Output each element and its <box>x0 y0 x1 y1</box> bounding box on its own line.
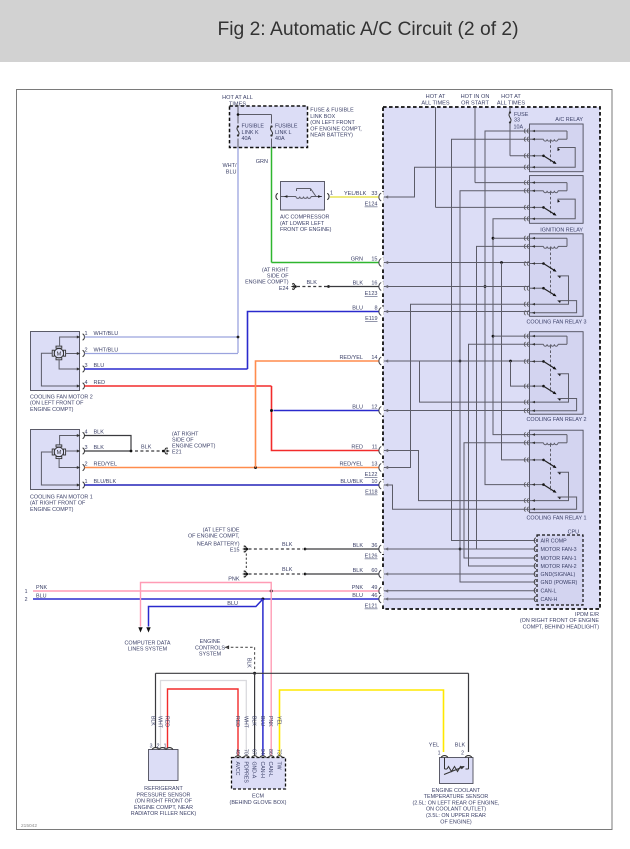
svg-text:HOT AT: HOT AT <box>426 94 446 100</box>
svg-text:BLK: BLK <box>307 280 318 286</box>
svg-text:RED/YEL: RED/YEL <box>339 355 363 361</box>
svg-text:1: 1 <box>85 479 88 485</box>
svg-text:RED: RED <box>94 380 106 386</box>
svg-text:MOTOR FAN-3: MOTOR FAN-3 <box>541 547 577 553</box>
svg-text:1: 1 <box>25 589 28 595</box>
svg-text:36: 36 <box>371 543 377 549</box>
svg-text:WHT: WHT <box>157 716 163 729</box>
svg-text:49: 49 <box>234 749 240 755</box>
svg-text:FRONT OF ENGINE): FRONT OF ENGINE) <box>280 227 332 233</box>
svg-text:ENGINE COMPT): ENGINE COMPT) <box>172 444 216 450</box>
svg-text:E126: E126 <box>365 554 378 560</box>
svg-text:E123: E123 <box>365 291 378 297</box>
svg-text:BLK: BLK <box>353 568 364 574</box>
svg-text:COMPT, BEHIND HEADLIGHT): COMPT, BEHIND HEADLIGHT) <box>523 624 600 630</box>
svg-text:YEL/BLK: YEL/BLK <box>344 191 367 197</box>
svg-text:BLU: BLU <box>259 716 265 726</box>
svg-text:16: 16 <box>371 280 377 286</box>
svg-text:(AT LOWER LEFT: (AT LOWER LEFT <box>280 221 325 227</box>
svg-text:OF ENGINE COMPT,: OF ENGINE COMPT, <box>310 126 362 132</box>
svg-text:E24: E24 <box>279 286 289 292</box>
svg-text:OF ENGINE): OF ENGINE) <box>440 819 472 825</box>
svg-text:(ON LEFT FRONT: (ON LEFT FRONT <box>310 120 355 126</box>
svg-text:FUSIBLE: FUSIBLE <box>275 124 298 130</box>
svg-text:3: 3 <box>85 363 88 369</box>
svg-text:WHT: WHT <box>242 716 248 729</box>
svg-text:(AT RIGHT: (AT RIGHT <box>262 268 289 274</box>
svg-text:RED: RED <box>164 716 170 727</box>
svg-text:HOT AT: HOT AT <box>501 94 521 100</box>
svg-text:ENGINE COOLANT: ENGINE COOLANT <box>432 788 481 794</box>
svg-text:PRESSURE SENSOR: PRESSURE SENSOR <box>137 792 191 798</box>
svg-text:BLK: BLK <box>353 280 364 286</box>
svg-text:BLK: BLK <box>353 543 364 549</box>
svg-text:SYSTEM: SYSTEM <box>199 652 222 658</box>
svg-text:Fig 2: Automatic A/C Circuit (: Fig 2: Automatic A/C Circuit (2 of 2) <box>217 19 518 40</box>
svg-text:BLU: BLU <box>226 170 237 176</box>
svg-text:BLU: BLU <box>352 404 363 410</box>
svg-text:10: 10 <box>371 479 377 485</box>
svg-text:BLU/BLK: BLU/BLK <box>340 479 363 485</box>
svg-text:12: 12 <box>371 404 377 410</box>
svg-text:GND-A: GND-A <box>251 762 257 779</box>
svg-text:AIR COMP: AIR COMP <box>541 539 568 545</box>
svg-text:RED/YEL: RED/YEL <box>94 462 118 468</box>
svg-text:1: 1 <box>330 191 333 197</box>
svg-text:LINK L: LINK L <box>275 130 291 136</box>
svg-text:70: 70 <box>242 749 248 755</box>
svg-text:RED: RED <box>351 444 363 450</box>
svg-text:BLU/BLK: BLU/BLK <box>94 479 117 485</box>
svg-text:94: 94 <box>259 749 265 755</box>
svg-text:E119: E119 <box>365 316 377 322</box>
svg-text:A/C RELAY: A/C RELAY <box>555 117 583 123</box>
svg-text:215042: 215042 <box>21 823 37 829</box>
svg-text:3: 3 <box>150 744 153 750</box>
svg-text:E122: E122 <box>365 472 378 478</box>
svg-text:LINK BOX: LINK BOX <box>310 114 335 120</box>
svg-text:CAN-L: CAN-L <box>541 589 557 595</box>
svg-text:HOT IN ON: HOT IN ON <box>461 94 490 100</box>
svg-text:BLK: BLK <box>141 445 152 451</box>
svg-text:1: 1 <box>438 751 441 757</box>
svg-text:WHT/: WHT/ <box>222 163 237 169</box>
svg-text:SIDE OF: SIDE OF <box>267 274 289 280</box>
svg-text:BLK: BLK <box>150 716 156 726</box>
svg-text:1: 1 <box>85 331 88 337</box>
svg-text:(3.5L: ON UPPER REAR: (3.5L: ON UPPER REAR <box>426 813 486 819</box>
svg-text:40A: 40A <box>275 136 285 142</box>
svg-text:ENGINE COMPT): ENGINE COMPT) <box>30 507 74 513</box>
svg-text:COOLING FAN RELAY 1: COOLING FAN RELAY 1 <box>526 516 586 522</box>
svg-text:(AT RIGHT FRONT OF: (AT RIGHT FRONT OF <box>30 501 86 507</box>
svg-text:14: 14 <box>371 355 377 361</box>
svg-text:MOTOR FAN-1: MOTOR FAN-1 <box>541 556 577 562</box>
svg-text:FUSE & FUSIBLE: FUSE & FUSIBLE <box>310 108 354 114</box>
svg-text:WHT/BLU: WHT/BLU <box>94 348 119 354</box>
svg-text:NEAR BATTERY): NEAR BATTERY) <box>310 133 353 139</box>
svg-text:ENGINE COMPT): ENGINE COMPT) <box>30 407 74 413</box>
svg-text:BLU: BLU <box>352 593 363 599</box>
svg-text:(ON LEFT FRONT OF: (ON LEFT FRONT OF <box>30 401 84 407</box>
svg-text:8: 8 <box>374 305 377 311</box>
svg-text:PDPRES: PDPRES <box>242 762 248 784</box>
svg-text:OR START: OR START <box>461 101 489 107</box>
svg-text:ECM: ECM <box>252 794 264 800</box>
svg-text:WHT/BLU: WHT/BLU <box>94 331 119 337</box>
svg-text:33: 33 <box>371 191 377 197</box>
svg-text:40A: 40A <box>242 136 252 142</box>
svg-text:PNK: PNK <box>267 716 273 727</box>
svg-text:HOT AT ALL: HOT AT ALL <box>222 95 253 101</box>
svg-text:11: 11 <box>372 444 378 450</box>
svg-text:46: 46 <box>371 593 377 599</box>
svg-text:COMPUTER DATA: COMPUTER DATA <box>125 640 171 646</box>
svg-text:E21: E21 <box>172 450 182 456</box>
svg-text:1: 1 <box>164 744 167 750</box>
svg-text:BLK: BLK <box>455 743 466 749</box>
svg-text:86: 86 <box>267 749 273 755</box>
svg-text:E124: E124 <box>365 202 378 208</box>
svg-text:ENGINE: ENGINE <box>200 639 221 645</box>
svg-text:10A: 10A <box>514 125 524 131</box>
svg-text:M: M <box>57 351 62 357</box>
svg-text:(AT LEFT SIDE: (AT LEFT SIDE <box>203 527 240 533</box>
svg-text:ENGINE COMPT): ENGINE COMPT) <box>245 280 289 286</box>
svg-text:(BEHIND GLOVE BOX): (BEHIND GLOVE BOX) <box>230 800 287 806</box>
svg-text:MOTOR FAN-2: MOTOR FAN-2 <box>541 564 577 570</box>
svg-text:(ON RIGHT FRONT OF ENGINE: (ON RIGHT FRONT OF ENGINE <box>520 618 600 624</box>
svg-text:4: 4 <box>85 430 88 436</box>
svg-text:49: 49 <box>371 585 377 591</box>
svg-text:TW: TW <box>276 762 282 770</box>
svg-text:NEAR BATTERY): NEAR BATTERY) <box>197 542 240 548</box>
svg-text:2: 2 <box>461 751 464 757</box>
svg-text:BLU: BLU <box>352 305 363 311</box>
svg-text:YEL: YEL <box>276 716 282 726</box>
svg-text:2: 2 <box>85 462 88 468</box>
svg-text:PNK: PNK <box>352 585 364 591</box>
svg-text:BLK: BLK <box>282 567 293 573</box>
svg-text:SIDE OF: SIDE OF <box>172 438 194 444</box>
svg-text:RED/YEL: RED/YEL <box>339 461 363 467</box>
svg-text:E121: E121 <box>365 604 378 610</box>
svg-text:2: 2 <box>25 597 28 603</box>
svg-text:PNK: PNK <box>36 585 47 591</box>
svg-text:BLK: BLK <box>94 430 105 436</box>
svg-text:COOLING FAN RELAY 3: COOLING FAN RELAY 3 <box>526 319 586 325</box>
svg-text:ALL TIMES: ALL TIMES <box>421 101 450 107</box>
svg-text:(2.5L: ON LEFT REAR OF ENGINE,: (2.5L: ON LEFT REAR OF ENGINE, <box>412 800 500 806</box>
svg-text:2: 2 <box>157 744 160 750</box>
svg-text:BLK: BLK <box>94 445 105 451</box>
svg-text:CAN-L: CAN-L <box>267 762 273 778</box>
svg-text:15: 15 <box>371 256 377 262</box>
svg-text:GND(SIGNAL): GND(SIGNAL) <box>541 572 576 578</box>
svg-text:A/C COMPRESSOR: A/C COMPRESSOR <box>280 215 330 221</box>
svg-text:REFRIGERANT: REFRIGERANT <box>144 786 183 792</box>
svg-text:GND (POWER): GND (POWER) <box>541 580 578 586</box>
svg-text:(ON RIGHT FRONT OF: (ON RIGHT FRONT OF <box>135 799 193 805</box>
svg-text:CPU: CPU <box>568 530 579 536</box>
svg-text:PNK: PNK <box>228 576 240 582</box>
svg-text:LINES SYSTEM: LINES SYSTEM <box>128 647 168 653</box>
svg-text:YEL: YEL <box>429 743 439 749</box>
svg-text:M: M <box>57 450 62 456</box>
svg-text:COOLING FAN RELAY 2: COOLING FAN RELAY 2 <box>526 417 586 423</box>
svg-text:GRN: GRN <box>351 256 363 262</box>
svg-text:13: 13 <box>371 461 377 467</box>
svg-text:AVCC: AVCC <box>234 762 240 776</box>
svg-text:BLU: BLU <box>36 593 47 599</box>
svg-text:COOLING FAN MOTOR 1: COOLING FAN MOTOR 1 <box>30 494 93 500</box>
svg-text:E15: E15 <box>230 548 240 554</box>
svg-text:ALL TIMES: ALL TIMES <box>497 101 526 107</box>
svg-text:73: 73 <box>276 749 282 755</box>
svg-text:TEMPERATURE SENSOR: TEMPERATURE SENSOR <box>424 794 489 800</box>
svg-text:33: 33 <box>514 118 520 124</box>
svg-text:60: 60 <box>371 568 377 574</box>
svg-text:4: 4 <box>85 380 88 386</box>
svg-text:COOLING FAN MOTOR 2: COOLING FAN MOTOR 2 <box>30 394 93 400</box>
svg-text:RADIATOR FILLER NECK): RADIATOR FILLER NECK) <box>131 811 197 817</box>
svg-text:CONTROLS: CONTROLS <box>195 645 225 651</box>
svg-text:2: 2 <box>85 348 88 354</box>
svg-text:GRN: GRN <box>256 159 268 165</box>
svg-text:ON COOLANT OUTLET): ON COOLANT OUTLET) <box>426 807 486 813</box>
svg-text:RED: RED <box>234 716 240 727</box>
svg-text:CAN-H: CAN-H <box>259 762 265 779</box>
svg-text:IPDM E/R: IPDM E/R <box>575 612 599 618</box>
svg-text:BLK: BLK <box>246 658 252 668</box>
svg-text:ENGINE COMPT, NEAR: ENGINE COMPT, NEAR <box>134 805 193 811</box>
svg-text:3: 3 <box>85 445 88 451</box>
svg-text:IGNITION RELAY: IGNITION RELAY <box>540 228 583 234</box>
svg-text:BLK: BLK <box>251 716 257 726</box>
svg-text:CAN-H: CAN-H <box>541 597 558 603</box>
svg-text:(AT RIGHT: (AT RIGHT <box>172 431 199 437</box>
svg-text:FUSIBLE: FUSIBLE <box>242 124 265 130</box>
svg-text:LINK K: LINK K <box>242 130 259 136</box>
svg-text:67: 67 <box>251 749 257 755</box>
svg-text:BLK: BLK <box>282 542 293 548</box>
svg-text:E118: E118 <box>365 490 377 496</box>
svg-text:OF ENGINE COMPT,: OF ENGINE COMPT, <box>188 534 240 540</box>
svg-text:BLU: BLU <box>227 601 238 607</box>
svg-text:TIMES: TIMES <box>229 102 246 108</box>
svg-text:BLU: BLU <box>94 363 105 369</box>
